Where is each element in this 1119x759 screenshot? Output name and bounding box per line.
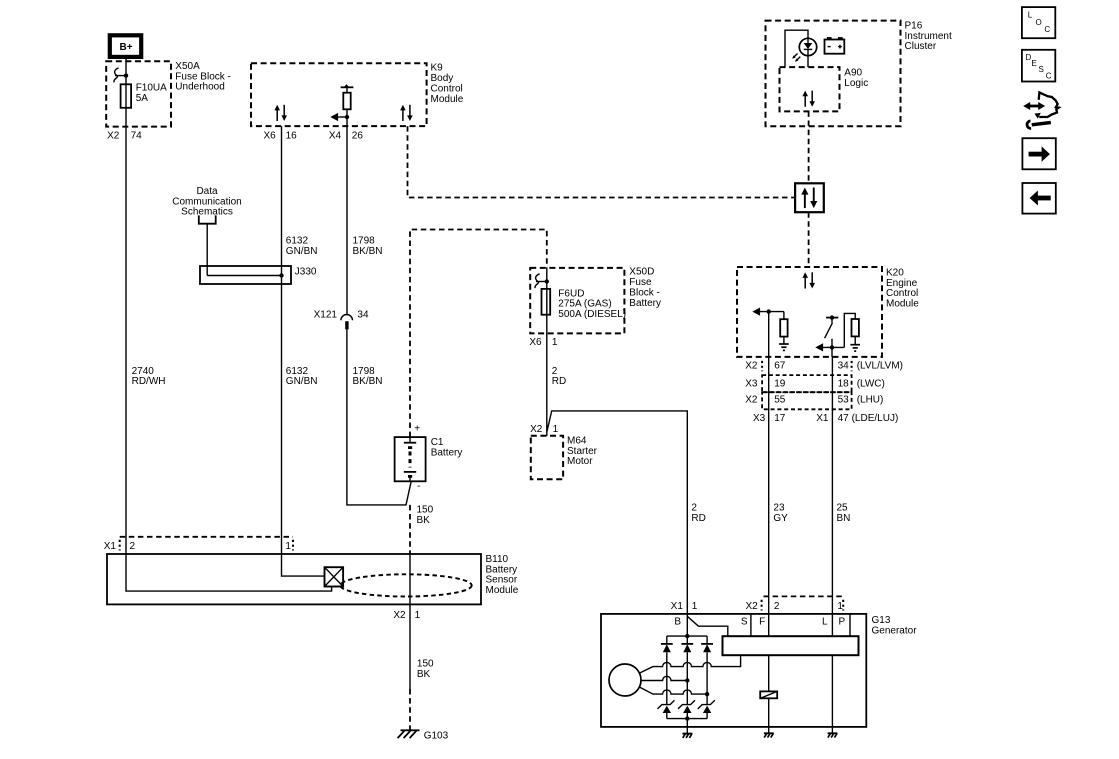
svg-text:BK/BN: BK/BN bbox=[353, 246, 383, 257]
svg-text:C: C bbox=[1046, 72, 1052, 81]
ground G103 bbox=[401, 729, 420, 731]
svg-text:X1: X1 bbox=[816, 413, 829, 424]
field winding element bbox=[760, 691, 777, 698]
svg-text:F: F bbox=[759, 616, 765, 627]
svg-text:1798: 1798 bbox=[353, 236, 376, 247]
svg-text:B: B bbox=[674, 616, 681, 627]
svg-text:Sensor: Sensor bbox=[486, 575, 518, 586]
svg-text:Module: Module bbox=[486, 585, 519, 596]
svg-text:55: 55 bbox=[774, 395, 786, 406]
A90 up/down arrows bbox=[802, 91, 815, 107]
svg-text:X2: X2 bbox=[745, 395, 758, 406]
fuse clip symbol bbox=[115, 75, 126, 77]
svg-text:X2: X2 bbox=[530, 424, 543, 435]
K9 up/down arrows left bbox=[274, 105, 287, 121]
svg-text:Body: Body bbox=[431, 73, 454, 84]
svg-text:47: 47 bbox=[838, 413, 850, 424]
svg-text:GY: GY bbox=[773, 513, 788, 524]
dashed wire A90 to inline connector bbox=[808, 111, 810, 183]
K20 Engine Control Module dashed box bbox=[737, 267, 882, 357]
rectifier bottom bus bbox=[667, 718, 707, 720]
fuse F6UD bbox=[546, 268, 548, 289]
wire 23 GY bbox=[768, 312, 770, 614]
wire 1798 BK/BN from K9 X4 bbox=[346, 126, 348, 315]
svg-text:(LDE/LUJ): (LDE/LUJ) bbox=[852, 413, 899, 424]
svg-text:A90: A90 bbox=[844, 67, 862, 78]
svg-text:E: E bbox=[1031, 59, 1036, 68]
K20 up/down arrows bbox=[802, 272, 815, 288]
svg-text:X50D: X50D bbox=[629, 267, 654, 278]
B110 internal wire from X1-2 bbox=[126, 554, 332, 591]
svg-text:K20: K20 bbox=[886, 267, 904, 278]
svg-text:L: L bbox=[822, 616, 828, 627]
svg-text:X2: X2 bbox=[107, 130, 120, 141]
K9 Body Control Module dashed box bbox=[251, 63, 427, 126]
X2 connector row generator bbox=[764, 595, 844, 597]
icon LOC box bbox=[1022, 7, 1055, 38]
svg-text:X121: X121 bbox=[314, 310, 338, 321]
svg-text:BN: BN bbox=[837, 513, 851, 524]
K9 internal resistor with supply bar bbox=[341, 86, 354, 88]
svg-text:Control: Control bbox=[431, 84, 463, 95]
phase winding middle bbox=[641, 676, 687, 680]
X1 connector row above B110 bbox=[120, 536, 293, 538]
battery cable through module bbox=[409, 554, 411, 604]
B tap to regulator bbox=[687, 616, 728, 636]
L wire through generator bbox=[831, 614, 833, 636]
B110 Battery Sensor Module box bbox=[107, 554, 481, 604]
svg-text:150: 150 bbox=[417, 505, 434, 516]
svg-text:6132: 6132 bbox=[286, 366, 309, 377]
svg-text:M64: M64 bbox=[567, 435, 587, 446]
svg-text:X6: X6 bbox=[529, 337, 542, 348]
svg-text:Logic: Logic bbox=[844, 78, 868, 89]
svg-text:Generator: Generator bbox=[872, 625, 918, 636]
X50D Fuse Block - Battery dashed box bbox=[530, 268, 624, 334]
svg-text:Control: Control bbox=[886, 288, 918, 299]
svg-text:RD/WH: RD/WH bbox=[132, 376, 166, 387]
svg-text:5A: 5A bbox=[136, 93, 149, 104]
wire 2740 RD/WH bbox=[125, 108, 127, 554]
junction dot fuse top bbox=[124, 73, 128, 77]
M64 Starter Motor dashed box bbox=[531, 436, 563, 480]
icon data exchange with vehicle bbox=[1029, 105, 1041, 108]
fuse F10UA 5A bbox=[121, 84, 132, 108]
svg-text:26: 26 bbox=[352, 130, 364, 141]
svg-text:X2: X2 bbox=[393, 610, 406, 621]
svg-text:P16: P16 bbox=[905, 20, 923, 31]
svg-text:RD: RD bbox=[691, 513, 705, 524]
wire 6132 GN/BN from K9 X6 bbox=[281, 126, 283, 554]
wire from bracket to J330 bbox=[206, 224, 208, 276]
svg-text:Battery: Battery bbox=[629, 298, 661, 309]
K20 right group: switch bbox=[826, 317, 838, 319]
svg-text:BK/BN: BK/BN bbox=[353, 376, 383, 387]
K20 left group: output arrow bbox=[752, 308, 760, 316]
svg-text:Data: Data bbox=[196, 186, 218, 197]
svg-text:Battery: Battery bbox=[431, 448, 463, 459]
svg-text:17: 17 bbox=[774, 413, 786, 424]
upper diode column 3 bbox=[706, 636, 708, 644]
svg-text:F10UA: F10UA bbox=[136, 83, 167, 94]
shunt sensor crossed box bbox=[325, 567, 344, 586]
B wire into bridge bbox=[686, 614, 688, 636]
svg-text:P: P bbox=[839, 616, 846, 627]
A90 Logic dashed box bbox=[780, 67, 840, 111]
svg-text:F6UD: F6UD bbox=[558, 288, 584, 299]
svg-text:Schematics: Schematics bbox=[181, 207, 233, 218]
svg-text:19: 19 bbox=[774, 378, 786, 389]
svg-text:1: 1 bbox=[285, 541, 291, 552]
svg-text:Starter: Starter bbox=[567, 446, 598, 457]
svg-text:275A (GAS): 275A (GAS) bbox=[558, 299, 611, 310]
svg-text:74: 74 bbox=[131, 130, 143, 141]
svg-text:Module: Module bbox=[431, 94, 464, 105]
svg-text:S: S bbox=[741, 616, 748, 627]
svg-text:(LHU): (LHU) bbox=[857, 395, 884, 406]
svg-text:2740: 2740 bbox=[132, 366, 155, 377]
svg-text:O: O bbox=[1036, 18, 1042, 27]
battery telltale icon bbox=[825, 40, 845, 54]
icon forward arrow box bbox=[1022, 138, 1055, 169]
wire 150 BK to ground bbox=[409, 604, 411, 689]
G13 Generator box bbox=[601, 614, 866, 727]
svg-text:L: L bbox=[1028, 11, 1033, 20]
wire 25 BN bbox=[831, 357, 833, 614]
svg-text:1: 1 bbox=[837, 601, 843, 612]
K20 left internal ground bbox=[779, 344, 789, 350]
upper diode column 1 bbox=[666, 636, 668, 644]
dashed wire connector to K20 bbox=[808, 212, 810, 267]
svg-text:Block -: Block - bbox=[629, 288, 660, 299]
generator grounds bbox=[686, 727, 688, 734]
svg-text:C: C bbox=[1044, 25, 1050, 34]
svg-text:B110: B110 bbox=[486, 554, 509, 565]
svg-text:X50A: X50A bbox=[175, 61, 200, 72]
svg-text:X2: X2 bbox=[745, 601, 758, 612]
svg-text:Module: Module bbox=[886, 299, 919, 310]
dashed 150 BK wire battery- to B110 bbox=[409, 505, 411, 554]
svg-text:C1: C1 bbox=[431, 437, 444, 448]
svg-text:BK: BK bbox=[417, 669, 431, 680]
svg-text:G103: G103 bbox=[424, 730, 449, 741]
serial data connector symbol bbox=[795, 183, 824, 212]
LED emission arrows bbox=[793, 54, 797, 58]
svg-text:X6: X6 bbox=[263, 130, 276, 141]
K9 up/down arrows right bbox=[400, 105, 413, 121]
K9 left-pointing arrow on X4 wire bbox=[345, 115, 349, 119]
voltage regulator box bbox=[723, 636, 859, 655]
svg-text:Battery: Battery bbox=[486, 564, 518, 575]
X50A Fuse Block - Underhood dashed box bbox=[106, 61, 171, 126]
svg-text:1: 1 bbox=[553, 424, 559, 435]
svg-text:Engine: Engine bbox=[886, 278, 918, 289]
dashed ellipse clamp bbox=[340, 574, 471, 596]
inline connector X121 pin 34 bbox=[341, 315, 353, 321]
svg-text:2: 2 bbox=[774, 601, 780, 612]
svg-text:1: 1 bbox=[552, 337, 558, 348]
svg-text:16: 16 bbox=[286, 130, 298, 141]
svg-text:18: 18 bbox=[838, 378, 850, 389]
svg-text:34: 34 bbox=[357, 310, 369, 321]
svg-text:500A (DIESEL): 500A (DIESEL) bbox=[558, 309, 626, 320]
svg-text:RD: RD bbox=[552, 376, 566, 387]
svg-text:67: 67 bbox=[774, 361, 786, 372]
svg-text:2: 2 bbox=[130, 541, 136, 552]
wire 2 RD down to starter and generator branch bbox=[546, 315, 548, 436]
svg-text:(LWC): (LWC) bbox=[857, 378, 885, 389]
lower avalanche diode column 3 bbox=[698, 700, 715, 709]
svg-text:X1: X1 bbox=[104, 541, 117, 552]
splice J330 bbox=[200, 266, 291, 284]
svg-text:Communication: Communication bbox=[172, 196, 241, 207]
svg-text:X3: X3 bbox=[745, 378, 758, 389]
svg-text:6132: 6132 bbox=[286, 236, 309, 247]
B110 internal wire from X1-1 bbox=[282, 554, 325, 576]
svg-text:150: 150 bbox=[417, 659, 434, 670]
svg-text:X1: X1 bbox=[671, 601, 684, 612]
svg-text:X2: X2 bbox=[745, 361, 758, 372]
svg-text:Instrument: Instrument bbox=[905, 31, 952, 42]
wire loop LED to A90 bbox=[785, 30, 808, 67]
svg-text:-: - bbox=[417, 481, 420, 492]
svg-text:GN/BN: GN/BN bbox=[286, 376, 318, 387]
branch tap to generator bbox=[547, 411, 687, 614]
lower avalanche diode column 2 bbox=[678, 700, 695, 709]
svg-text:Underhood: Underhood bbox=[175, 82, 224, 93]
K20 left pull resistor bbox=[783, 312, 785, 320]
svg-text:BK: BK bbox=[417, 515, 431, 526]
B+ terminal box bbox=[110, 35, 141, 57]
dashed unfused wire battery+ to X50D bbox=[410, 230, 547, 438]
svg-text:+: + bbox=[414, 424, 420, 435]
K20 pin rows dashed boxes bbox=[762, 375, 852, 392]
svg-text:(LVL/LVM): (LVL/LVM) bbox=[857, 361, 903, 372]
svg-text:53: 53 bbox=[838, 395, 850, 406]
dashed data wire from K9 to instrument panel trunk bbox=[408, 126, 796, 197]
svg-text:G13: G13 bbox=[872, 615, 891, 626]
icon DESC box bbox=[1022, 50, 1055, 82]
svg-text:2: 2 bbox=[552, 366, 558, 377]
svg-text:2: 2 bbox=[691, 503, 697, 514]
svg-text:X3: X3 bbox=[753, 413, 766, 424]
svg-text:23: 23 bbox=[773, 503, 785, 514]
svg-text:34: 34 bbox=[838, 361, 850, 372]
wire B+ to fuse bbox=[125, 57, 127, 84]
K20 right output arrow bbox=[815, 343, 823, 351]
svg-text:K9: K9 bbox=[431, 63, 444, 74]
svg-text:Fuse: Fuse bbox=[629, 277, 652, 288]
F wire through generator bbox=[768, 614, 770, 636]
svg-text:B+: B+ bbox=[119, 42, 132, 53]
wire 1798 continues to battery negative bbox=[347, 329, 411, 505]
P16 Instrument Cluster dashed box bbox=[766, 21, 901, 127]
svg-text:Fuse Block -: Fuse Block - bbox=[175, 71, 231, 82]
terminal cell dividers bbox=[750, 614, 752, 636]
svg-text:S: S bbox=[1039, 65, 1044, 74]
svg-text:Cluster: Cluster bbox=[905, 41, 937, 52]
lower avalanche diode column 1 bbox=[658, 700, 675, 709]
K20 right pull resistor bbox=[844, 313, 855, 347]
phase winding top bbox=[639, 655, 740, 673]
phase winding bottom bbox=[639, 687, 707, 694]
rectifier top bus bbox=[667, 635, 707, 637]
upper diode column 2 bbox=[686, 636, 688, 644]
svg-text:X4: X4 bbox=[329, 130, 342, 141]
svg-text:25: 25 bbox=[837, 503, 849, 514]
svg-text:Motor: Motor bbox=[567, 456, 593, 467]
charge indicator LED bbox=[799, 38, 816, 55]
svg-text:GN/BN: GN/BN bbox=[286, 246, 318, 257]
svg-text:1798: 1798 bbox=[353, 366, 376, 377]
icon back arrow box bbox=[1022, 183, 1055, 214]
svg-text:1: 1 bbox=[692, 601, 698, 612]
battery C1 bbox=[395, 437, 426, 481]
svg-text:J330: J330 bbox=[295, 267, 317, 278]
fuse clip symbol bbox=[536, 281, 547, 283]
svg-text:1: 1 bbox=[415, 610, 421, 621]
stator circle bbox=[609, 664, 641, 696]
K20 right internal ground bbox=[850, 345, 860, 351]
